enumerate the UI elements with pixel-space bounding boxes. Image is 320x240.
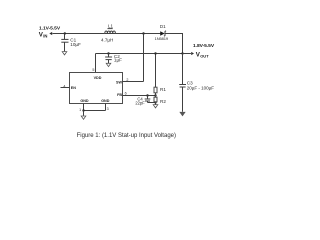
svg-text:1µF: 1µF (114, 58, 122, 63)
wire GND pin 1 stub (83, 104, 85, 111)
wire R1 to R2 (155, 93, 157, 97)
svg-text:5: 5 (92, 68, 94, 72)
node C1 junction (64, 32, 66, 34)
inductor L1 (105, 31, 116, 34)
wire output rail (96, 53, 183, 55)
node divider top junction (154, 52, 156, 54)
op-amp U1 IC box (70, 73, 123, 104)
svg-text:GND: GND (80, 99, 89, 103)
wire EN stub (61, 87, 70, 89)
node VOUT output label (193, 43, 215, 58)
label L1 (108, 24, 114, 29)
svg-text:1: 1 (79, 108, 81, 112)
wire VIN to L1 (52, 33, 104, 35)
diode D1 (160, 31, 166, 36)
svg-text:EN: EN (71, 86, 76, 90)
wire output corner down (182, 34, 184, 54)
resistor R1 (154, 87, 157, 93)
svg-text:22pF: 22pF (135, 100, 145, 105)
wire GND down (83, 111, 85, 116)
svg-text:SW: SW (116, 80, 122, 84)
svg-text:GND: GND (101, 99, 110, 103)
svg-text:1N5819: 1N5819 (155, 36, 169, 41)
svg-text:3: 3 (107, 107, 109, 111)
capacitor C3 (179, 54, 186, 112)
label C4 value (135, 96, 145, 105)
node SW junction (142, 32, 144, 34)
resistor R2 (154, 97, 157, 102)
svg-text:1.8V-5.5V: 1.8V-5.5V (193, 43, 215, 49)
VOUT terminal arrow (183, 52, 195, 55)
svg-text:VDD: VDD (94, 76, 102, 80)
node C4 ground junction (154, 101, 156, 103)
wire VOUT to R1 (155, 54, 157, 88)
svg-text:Figure 1: (1.1V Stat-up Input: Figure 1: (1.1V Stat-up Input Voltage) (77, 133, 176, 139)
label C1 value (70, 38, 81, 47)
svg-text:D1: D1 (160, 24, 166, 29)
svg-text:IN: IN (43, 34, 47, 39)
wire GND pin 3 stub (105, 104, 107, 111)
node VIN input label (39, 25, 61, 38)
node C4 junction (146, 94, 148, 96)
svg-text:R2: R2 (160, 99, 166, 104)
wire FB net (123, 95, 156, 97)
capacitor C4 (145, 96, 156, 103)
svg-text:10µF: 10µF (70, 42, 81, 47)
node VOUT junction (181, 52, 183, 54)
svg-text:1.1V-5.5V: 1.1V-5.5V (39, 25, 61, 31)
svg-text:20µF - 100µF: 20µF - 100µF (187, 85, 214, 90)
ground C2 (106, 63, 111, 66)
svg-text:4.7µH: 4.7µH (101, 37, 113, 42)
VIN terminal arrow (49, 32, 52, 35)
node FB divider junction (154, 94, 156, 96)
node GND junction (82, 109, 84, 111)
svg-text:OUT: OUT (200, 53, 209, 58)
wire GND pins join (84, 110, 106, 112)
capacitor C1 (61, 34, 68, 52)
ground R2 (153, 105, 158, 108)
ground IC (81, 116, 86, 119)
IC pin labels (71, 76, 123, 103)
wire SW net (123, 34, 144, 82)
label C2 value (114, 54, 122, 63)
node C2 junction (107, 52, 109, 54)
svg-text:6: 6 (125, 92, 127, 96)
label C3 value (187, 81, 214, 91)
wire VDD stub (95, 54, 97, 73)
wire D1 to output corner (166, 33, 184, 35)
ground C1 (62, 52, 67, 55)
svg-text:R1: R1 (160, 87, 166, 92)
svg-text:L1: L1 (108, 24, 114, 29)
ground C3 (180, 112, 185, 116)
wire L1 to D1 (115, 33, 160, 35)
wire R2 to ground (155, 102, 157, 105)
svg-text:FB: FB (117, 93, 122, 97)
capacitor C2 (105, 54, 112, 64)
